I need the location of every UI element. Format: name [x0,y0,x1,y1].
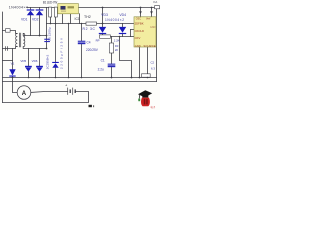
resistor R2 [86,22,97,25]
svg-text:2CZ85B×2: 2CZ85B×2 [45,54,49,69]
wire IC2 gnd pin [139,47,141,78]
wire C4 column [81,24,83,41]
diode VD3 right [99,27,106,34]
wire IC2 pin low [131,36,135,38]
capacitor C4 [78,41,86,45]
wire secondary bottom [23,47,46,49]
capacitor C1 [108,64,116,68]
wire VD5 column [28,49,30,66]
svg-text:V1: V1 [11,62,15,66]
label KA top right [155,6,160,9]
wire VD5 to bus [28,71,30,77]
resistor R1 [109,43,113,53]
svg-text:VD1: VD1 [21,17,28,21]
wire bottom frame [3,81,157,83]
arrow into IC2 pin1 [139,11,142,14]
svg-text:VD3: VD3 [101,13,108,17]
wire cap2 column [55,17,57,24]
wire main ground bus [3,77,157,79]
wire IC2 top pin 2 [151,8,153,17]
wire C3 column [46,8,48,49]
wire mains stub top [3,31,18,34]
battery GB [68,88,76,95]
svg-text:1N4004×2: 1N4004×2 [105,18,124,22]
wire IC2 left pin link [130,30,132,37]
svg-text:GND: GND [150,26,156,29]
wire filter column [68,24,70,78]
svg-text:CKV: CKV [135,36,141,40]
wire VD6 column [39,49,41,66]
wire IC1 pin a [62,14,64,24]
svg-text:VD6: VD6 [32,59,38,63]
diode VD1 [27,9,35,15]
svg-text:C4: C4 [87,41,91,45]
svg-text:2.2u: 2.2u [98,67,104,71]
svg-text:220/25V: 220/25V [86,48,99,52]
diode V1 left [9,69,15,76]
wire left border [2,12,4,103]
svg-text:B1 LED·7W: B1 LED·7W [43,1,58,5]
svg-text:1N4004×4: 1N4004×4 [9,5,28,9]
svg-text:C2: C2 [151,61,155,65]
wire V1 to bus [12,77,14,78]
svg-text:VD5: VD5 [20,59,26,63]
svg-text:VD2: VD2 [32,17,39,21]
svg-text:2.2K: 2.2K [114,38,120,42]
arrow into IC2 pin2 [150,11,153,14]
diode VD2 [36,9,44,15]
svg-text:电子: 电子 [151,105,156,109]
junction dots [12,7,153,79]
svg-text:OSC: OSC [136,18,141,21]
svg-text:RP: RP [96,38,100,42]
wire ammeter to battery [31,91,68,94]
transformer secondary [23,33,25,46]
svg-text:C3 2200μ: C3 2200μ [47,27,51,41]
resistor RP [100,35,111,38]
wire secondary top [23,33,46,35]
diode VD4 right [119,27,126,34]
wire IC2 top pin 1 [140,8,142,17]
wire rail mid [47,23,135,25]
fuse FU [6,29,11,33]
svg-text:KA: KA [154,0,158,4]
wire IC2 pin mid [131,29,135,31]
ammeter A [17,86,31,100]
svg-text:CKCLD: CKCLD [135,29,144,33]
capacitor C6 box 1 [49,7,52,17]
capacitor C7 box 2 [54,7,57,17]
wire aux stub [3,60,13,62]
diode VD5 [25,66,32,72]
svg-text:R3: R3 [115,44,119,48]
svg-text:Vref: Vref [146,18,151,21]
wire VD3 column [102,8,104,27]
svg-text:VD4: VD4 [119,13,126,17]
wire V1 column [12,49,14,70]
svg-text:2K: 2K [115,48,118,52]
wire divider node line [103,36,131,38]
wire VD2 column [39,8,41,10]
transformer T primary [16,33,25,47]
capacitor C5 blue [44,39,50,42]
transformer core [19,33,21,47]
wire VD6 to bus [39,71,41,77]
wire VD1 column [30,8,32,10]
wire battery return loop [3,92,89,103]
svg-text:TH2: TH2 [84,15,91,19]
plug pins [5,46,7,50]
svg-text:A: A [22,91,27,97]
svg-text:C1: C1 [101,59,105,63]
wire right border [156,9,158,82]
svg-text:SOURCE: SOURCE [144,44,156,48]
wire feedback branch [120,37,132,78]
svg-text:2DFBK: 2DFBK [135,21,144,25]
svg-text:6.3: 6.3 [151,67,155,71]
IC1 box [58,4,79,14]
svg-text:IC1: IC1 [75,17,80,21]
diode VD7 mid [52,62,59,68]
wire R1 C1 column [111,37,113,44]
wire diode VD7 column [55,24,57,62]
black mark bottom [89,105,92,107]
svg-text:R2 3C: R2 3C [83,27,96,31]
wire cap1 column [50,17,52,24]
wire VD4 column [122,24,124,27]
wire ammeter feed [13,78,18,93]
wire top bus [27,7,155,9]
capacitor C2 [142,74,151,77]
diode VD6 [36,66,43,72]
IC2 box [134,17,156,48]
wire IC2 source pin [147,47,149,74]
wire IC1 pin right [79,14,81,24]
svg-text:GND: GND [135,44,141,48]
wire mains stub bottom [3,47,18,49]
logo graduation cap figure [138,90,152,106]
wire IC1 pin b [70,14,72,24]
